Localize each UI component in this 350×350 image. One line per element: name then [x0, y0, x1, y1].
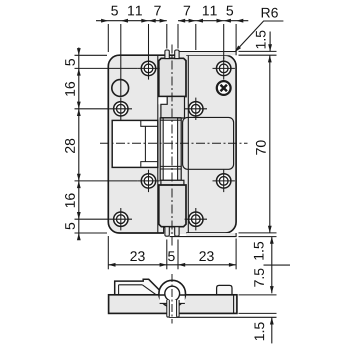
- extension line rear leaf bottom: [239, 236, 277, 238]
- screw hole bottom-left: [110, 208, 132, 230]
- left plate right edge: [157, 56, 159, 121]
- dimension line left: [96, 20, 167, 22]
- right side arrowheads: [268, 44, 274, 324]
- slot between legs: [167, 300, 179, 317]
- extension line y=233: [75, 232, 108, 234]
- extension line x=236.1: [235, 239, 237, 270]
- screw hole bottom-right: [185, 208, 207, 230]
- hinge pin (inner circle): [165, 286, 180, 301]
- screw hole lower-left-inner: [137, 170, 159, 192]
- label 1.5 (rotated): [254, 242, 264, 260]
- flap inner fold horizontal: [119, 284, 143, 286]
- plain hole left: [112, 80, 129, 97]
- extension line x=108.3: [107, 24, 109, 52]
- screw hole mid-right: [185, 98, 207, 120]
- bottom chain arrowheads: [108, 263, 236, 267]
- screw hole top-right: [213, 57, 235, 79]
- notch inner step bottom: [141, 162, 158, 167]
- rear leaf bottom strip (sticks down 1.5): [186, 233, 236, 237]
- extension line x=148.5: [148, 24, 150, 59]
- knuckle barrel dome (outer): [159, 280, 186, 307]
- 70 dimension line: [269, 55, 271, 233]
- label 5 (rotated): [65, 59, 75, 66]
- screw hole top-left: [137, 57, 159, 79]
- extension line rear leaf top: [239, 50, 277, 52]
- dimension line right: [178, 20, 248, 22]
- label 5: [227, 6, 234, 16]
- label 7: [154, 6, 160, 16]
- plate top edge through barrel: [159, 294, 186, 296]
- R6 leader: [233, 21, 283, 53]
- sleeve divider lower: [160, 165, 181, 167]
- label 16 (rotated): [65, 193, 75, 207]
- plate right end inner edge: [233, 295, 235, 314]
- boss bump on right plate: [217, 285, 232, 295]
- label 70 (rotated): [256, 140, 266, 154]
- top chain arrowheads: [101, 19, 243, 23]
- extension line plate bottom (bottom view): [239, 312, 277, 314]
- bottom view centerline: [171, 274, 173, 324]
- label 5: [111, 6, 118, 16]
- step gap (white) left of collar: [158, 97, 167, 104]
- label 11: [203, 6, 217, 16]
- leg right: [177, 300, 180, 317]
- extension line body top: [239, 54, 277, 56]
- flap inner fold vertical: [118, 285, 120, 295]
- dimension line: [108, 264, 236, 266]
- upper prong right: [175, 50, 179, 59]
- screw hole mid-left: [110, 98, 132, 120]
- pin sleeve: [160, 118, 181, 180]
- extension line x=223.7: [223, 24, 225, 59]
- label 5: [168, 251, 175, 261]
- main plate bar: [109, 295, 237, 314]
- label 1.5 (rotated): [255, 322, 265, 340]
- label 7: [184, 6, 190, 16]
- recess pad outline on right plate: [183, 117, 234, 169]
- extension line y=219.2: [75, 218, 110, 220]
- hidden edge patch top (rear leaf area): [179, 54, 186, 56]
- plate cutout pocket under barrel: [160, 295, 185, 303]
- left chain arrowheads: [77, 48, 81, 240]
- lower knuckle: [159, 185, 186, 227]
- upper prong left: [165, 50, 169, 59]
- label 1.5 (rotated): [256, 31, 266, 49]
- upper knuckle: [159, 58, 186, 96]
- horizontal centerline: [100, 142, 248, 144]
- 1.5/7.5 dimension tail: [271, 237, 273, 294]
- upper collar block with step cutout: [161, 97, 185, 119]
- pin (white strip): [163, 118, 177, 180]
- raised flap (left leaf seen from below): [115, 279, 162, 295]
- extension line x=178: [177, 24, 179, 49]
- extension line x=236.1: [235, 24, 237, 52]
- label 23: [130, 251, 144, 261]
- dimension shelf: [264, 264, 291, 266]
- extension line x=195.8: [195, 24, 197, 50]
- label 23: [199, 251, 213, 261]
- 1.5 top dimension tail: [269, 32, 271, 52]
- rear leaf top strip (sticks up 1.5): [178, 52, 236, 56]
- label 5 (rotated): [65, 223, 75, 230]
- screw head hole (X) right: [217, 81, 231, 95]
- extension line y=108.8: [75, 108, 110, 110]
- left plate bottom step near knuckle: [164, 228, 166, 234]
- leg left: [167, 300, 170, 317]
- extension line y=55.3: [75, 54, 108, 56]
- right plate left edge: [187, 55, 189, 232]
- vertical centerline: [171, 45, 173, 248]
- lower prong right: [175, 227, 179, 237]
- label 7.5 (rotated): [254, 269, 264, 287]
- extension line plate top (bottom view): [239, 294, 277, 296]
- extension line x=166.8: [166, 24, 168, 49]
- label 28 (rotated): [65, 139, 75, 153]
- dimension text labels (as paths): [65, 6, 278, 340]
- lower flange: [161, 180, 184, 185]
- hinge body plate (front leaves, rounded corners R6): [108, 55, 236, 233]
- sleeve divider upper: [160, 117, 181, 119]
- extension line y=68.4: [75, 67, 138, 69]
- pocket floor left: [160, 302, 167, 304]
- extension line y=180.9: [75, 180, 138, 182]
- flap inner diagonal: [142, 285, 156, 295]
- rear leaf edge seen through notch: [144, 126, 146, 161]
- screw hole lower-right: [213, 170, 235, 192]
- extension line x=166.8: [166, 240, 168, 270]
- label 16 (rotated): [65, 82, 75, 96]
- extension line x=108.3: [107, 236, 109, 269]
- bottom 1.5 dimension tail: [271, 317, 273, 343]
- extension line x=178: [177, 240, 179, 270]
- mounting notch (white cutout in left plate): [112, 120, 158, 167]
- lower prong left: [165, 227, 169, 237]
- label 11: [128, 6, 142, 16]
- dimension line: [78, 48, 80, 241]
- hidden edge patch bottom (rear leaf area): [164, 232, 186, 234]
- label R6: [262, 8, 278, 18]
- extension line body bottom: [239, 232, 277, 234]
- notch inner step top: [141, 121, 158, 126]
- pocket floor right: [179, 302, 185, 304]
- extension line x=120.8: [120, 24, 122, 96]
- rear leaf lower line: [169, 316, 277, 318]
